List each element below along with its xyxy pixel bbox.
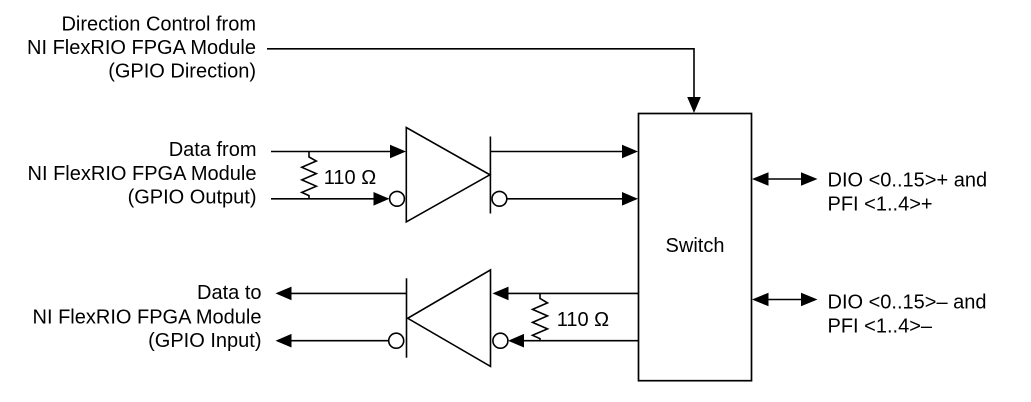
arrowhead left (data to, bottom) (276, 334, 292, 348)
arrowhead right into switch (top) (622, 145, 638, 159)
label: Data to / NI FlexRIO FPGA Module / (GPIO Input) (33, 282, 262, 352)
wire: direction control to switch (267, 49, 694, 98)
svg-text:NI FlexRIO FPGA Module: NI FlexRIO FPGA Module (28, 163, 257, 185)
wire: U1 top output to switch (490, 151, 622, 153)
switch box (639, 114, 752, 381)
svg-text:DIO <0..15>– and: DIO <0..15>– and (828, 292, 987, 314)
svg-text:Data from: Data from (169, 139, 257, 161)
arrowhead left at U2 top input (493, 287, 509, 301)
label: Direction Control from / NI FlexRIO FPGA Module / (GPIO Direction) (27, 13, 256, 82)
arrowhead right into switch (bottom) (622, 192, 638, 206)
wire: switch to buffer U2 bubble input (523, 340, 639, 342)
arrowhead down into switch top (687, 97, 701, 113)
arrowhead right at U1 top input (390, 145, 406, 159)
bubble: U1 output (492, 191, 507, 206)
bubble: U2 input (inverting) (493, 333, 508, 348)
resistor R1 (302, 152, 317, 199)
svg-text:110 Ω: 110 Ω (324, 167, 376, 189)
bar after U1 output (489, 137, 491, 214)
wire: data-from top into buffer U1 (271, 151, 390, 153)
label: Data from / NI FlexRIO FPGA Module / (GPIO Output) (28, 139, 257, 209)
arrowhead left (data to, top) (276, 287, 292, 301)
bubble: U2 output (389, 333, 404, 348)
svg-text:Direction Control from: Direction Control from (61, 13, 256, 35)
svg-text:(GPIO Output): (GPIO Output) (128, 187, 257, 209)
bubble: U1 input (inverting) (390, 191, 405, 206)
wire: U2 bottom output to Data-to label (291, 340, 389, 342)
buffer U1 (triangle) (406, 128, 490, 222)
arrowhead right (to label, +) (801, 172, 818, 186)
svg-text:110 Ω: 110 Ω (557, 309, 609, 331)
svg-text:(GPIO Direction): (GPIO Direction) (108, 61, 256, 83)
svg-text:Switch: Switch (666, 235, 725, 257)
arrowhead right at U1 bubble (374, 192, 390, 206)
resistor R2 (533, 293, 548, 340)
wire: data-from bottom into buffer U1 bubble (271, 198, 374, 200)
arrowhead left (at switch, +) (752, 172, 769, 186)
bar after U2 output (406, 278, 408, 357)
double arrow: switch to DIO- (768, 299, 802, 301)
arrowhead left (at switch, -) (752, 293, 769, 307)
svg-text:(GPIO Input): (GPIO Input) (148, 330, 261, 352)
svg-text:PFI <1..4>+: PFI <1..4>+ (828, 194, 933, 216)
wire: switch to buffer U2 top input (508, 292, 639, 294)
double arrow: switch to DIO+ (768, 178, 802, 180)
svg-text:NI FlexRIO FPGA Module: NI FlexRIO FPGA Module (33, 306, 262, 328)
svg-text:DIO <0..15>+ and: DIO <0..15>+ and (828, 170, 988, 192)
buffer U2 (triangle, pointing left) (408, 270, 491, 367)
svg-text:NI FlexRIO FPGA Module: NI FlexRIO FPGA Module (27, 37, 256, 59)
svg-text:Data to: Data to (197, 282, 261, 304)
label: DIO <0..15>- and PFI <1..4>- (828, 292, 987, 338)
arrowhead right (to label, -) (801, 293, 818, 307)
wire: U1 bottom output to switch (507, 198, 622, 200)
wire: U2 top output to Data-to label (291, 292, 407, 294)
label: DIO <0..15>+ and PFI <1..4>+ (828, 170, 988, 216)
arrowhead left at U2 bubble (508, 334, 524, 348)
svg-text:PFI <1..4>–: PFI <1..4>– (828, 315, 933, 337)
